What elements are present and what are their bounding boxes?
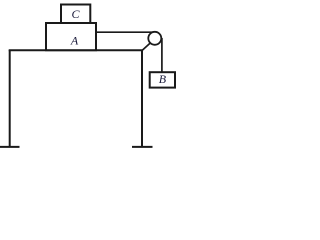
svg-text:B: B (159, 72, 167, 86)
svg-text:C: C (71, 7, 80, 21)
svg-text:A: A (70, 34, 79, 48)
